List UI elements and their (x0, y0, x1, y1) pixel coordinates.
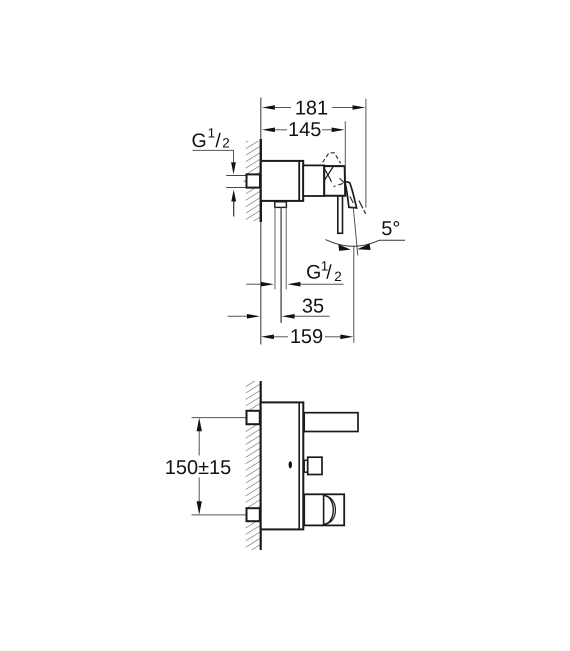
knob (308, 457, 322, 474)
hose nut below body (275, 202, 287, 208)
body front plate line (298, 403, 300, 530)
svg-text:/: / (215, 130, 221, 152)
dashed handle hidden edge b (334, 183, 343, 186)
wall face thick segment (260, 139, 262, 222)
dashed lever tip segments (359, 201, 363, 209)
wall hatching (bottom view) (246, 381, 260, 550)
hose pipe left edge (274, 207, 276, 289)
tilted 5-degree lever line (353, 207, 358, 256)
label G 1/2 (top left) (192, 126, 230, 152)
extension line right (181, dashed handle tip) (365, 99, 367, 208)
arrow stem below (233, 202, 235, 217)
leader line for 5 degrees (380, 239, 406, 241)
outlet cap arc outer (324, 496, 333, 525)
body ring groove (298, 161, 300, 201)
dimension 159 (261, 326, 353, 348)
outlet cap arc inner (326, 496, 336, 523)
arc arrow right (points left at lever line) (357, 244, 370, 250)
handle cap cone (324, 166, 345, 196)
dashed handle hidden edge a (340, 178, 346, 184)
arrow down to inlet top (231, 162, 236, 174)
svg-text:35: 35 (302, 296, 324, 318)
lower mounting union (247, 508, 260, 521)
svg-text:/: / (326, 262, 332, 284)
dimension 181 (262, 97, 366, 119)
valve body (261, 161, 303, 201)
svg-text:1: 1 (208, 126, 216, 141)
lever inner line (350, 197, 353, 204)
inlet centerline tick (244, 180, 249, 182)
svg-text:2: 2 (222, 135, 230, 150)
wall face / extension line (top view) (260, 98, 262, 345)
mixer body (bottom view) (261, 402, 304, 529)
extension line right (145, cap edge) (344, 121, 346, 165)
cartridge cylinder (303, 165, 324, 196)
svg-text:150±15: 150±15 (165, 457, 232, 479)
extension line lower (150 dim) (192, 514, 260, 516)
dimension G1/2 hose (arrows outside) (246, 282, 343, 287)
cap arc (324, 168, 332, 182)
wall face line (bottom view) (260, 381, 262, 550)
dimension 145 (262, 119, 345, 141)
hose pipe centerline / extension (280, 207, 282, 323)
leader line for G 1/2 (top left) (192, 150, 233, 162)
cap slant line (324, 166, 333, 180)
shower outlet pipe (top right) (304, 413, 358, 432)
svg-text:5°: 5° (381, 218, 400, 240)
dashed handle (up position) (323, 153, 341, 164)
5 degree swing arc (326, 240, 380, 247)
svg-text:159: 159 (290, 326, 323, 348)
dimension 35 (228, 296, 330, 319)
lever rod (down position) (338, 196, 343, 233)
temperature mark on body (289, 461, 292, 468)
hose pipe right edge (285, 207, 287, 289)
wall hatching (top view) (246, 141, 260, 221)
svg-text:181: 181 (295, 97, 328, 119)
upper mounting union (247, 411, 260, 424)
svg-text:145: 145 (288, 119, 321, 141)
dimension 150±15 (165, 418, 232, 515)
inlet pipe lines (G1/2 inlet) (226, 175, 246, 177)
svg-text:2: 2 (334, 269, 342, 284)
arrow up to inlet bottom (231, 190, 236, 202)
extension line upper (150 dim) (192, 417, 260, 419)
inlet nut (247, 174, 261, 187)
solid lever blade (345, 182, 357, 208)
arc arrow left (points right at lever line) (338, 244, 351, 251)
lower hose outlet (304, 494, 344, 525)
svg-text:G: G (306, 262, 321, 284)
svg-text:G: G (192, 130, 207, 152)
extension line right (159, lever tip) (353, 246, 355, 343)
outlet face line (323, 495, 325, 526)
knob stem (304, 460, 308, 472)
label G 1/2 (middle) (306, 258, 342, 284)
